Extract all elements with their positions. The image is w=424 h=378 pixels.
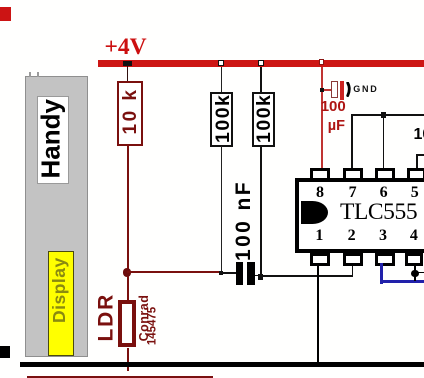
rail marker for C2 xyxy=(319,59,324,65)
pin 1 box xyxy=(310,253,330,267)
wire pin4 node to edge xyxy=(418,272,424,274)
pin 6 box xyxy=(375,168,395,182)
wire riser to pin 2 xyxy=(352,263,353,277)
wire C1 to node C xyxy=(255,275,261,276)
photoresistor LDR body xyxy=(118,300,136,347)
capacitor C2 minus plate xyxy=(346,82,355,97)
node C junction square xyxy=(258,274,263,279)
wire junction to pin 6 xyxy=(383,118,385,168)
pin 2 box xyxy=(343,253,363,267)
U1 notch xyxy=(301,201,328,224)
wire pin1 to ground xyxy=(317,263,320,362)
R3 value label 100k xyxy=(253,95,271,143)
pin 4 box xyxy=(405,253,424,267)
wire R1 to node A xyxy=(127,146,129,270)
wire pin5 riser xyxy=(416,154,418,168)
capacitor C2 junction dot xyxy=(320,88,324,92)
pin number 8 xyxy=(313,184,327,202)
C2 value uF xyxy=(328,118,345,134)
capacitor C1 100nF plate right xyxy=(247,262,254,285)
capacitor C1 100nF plate left xyxy=(236,262,243,285)
R2 value label 100k xyxy=(212,95,230,143)
pin number 4 xyxy=(407,227,421,245)
wire pin4 vertical xyxy=(414,263,416,281)
phone label box xyxy=(37,96,69,185)
R1 value label 10 k xyxy=(120,87,138,135)
pin4 junction dot xyxy=(411,270,418,277)
wire R2 to node B xyxy=(221,146,222,272)
junction square top net xyxy=(381,112,386,117)
C1 value label 100 nF xyxy=(232,184,251,261)
pin number 5 xyxy=(408,184,422,202)
wire node A to node B (horizontal) xyxy=(127,271,219,273)
U1 label TLC555 xyxy=(340,199,417,226)
red mark at left edge top xyxy=(0,7,11,21)
capacitor C2 plus plate xyxy=(340,81,344,100)
wire R3 to node C xyxy=(260,146,262,275)
wire rail to pin 8 (red) xyxy=(321,67,322,169)
pin number 2 xyxy=(345,227,359,245)
rail marker for R2 xyxy=(218,60,223,65)
pin number 7 xyxy=(346,184,360,202)
LDR label xyxy=(94,295,112,342)
resistor R2 100k xyxy=(210,92,233,147)
pin 7 box xyxy=(343,168,363,182)
rail marker for R3 xyxy=(258,60,263,65)
pin number 6 xyxy=(377,184,391,202)
capacitor C2 body box xyxy=(331,81,339,99)
label 10 (cut off 100k) xyxy=(414,126,424,144)
wire rail to R3 xyxy=(260,67,262,93)
phone antenna tick 2 xyxy=(37,72,39,77)
Handy label xyxy=(36,100,61,178)
pin 3 box xyxy=(375,253,395,267)
node B junction square xyxy=(219,271,224,275)
wire node C to pin2 riser xyxy=(263,275,353,276)
LDR label 145475 xyxy=(147,305,159,346)
pin number 1 xyxy=(312,227,326,245)
resistor R1 10k xyxy=(117,81,143,146)
GND label xyxy=(353,84,378,94)
wire pin3 blue vertical xyxy=(380,263,383,284)
junction on rail node R1 xyxy=(123,61,132,66)
display panel xyxy=(48,251,75,356)
wire rail to R2 xyxy=(221,67,222,93)
wire node A to LDR xyxy=(127,276,129,300)
cut-off red text at bottom edge xyxy=(27,376,213,378)
ground bus bar xyxy=(20,362,424,367)
C2 stub wire xyxy=(324,89,331,90)
wire blue horizontal to edge xyxy=(380,280,424,283)
pin 5 box xyxy=(407,168,424,182)
phone body panel xyxy=(25,76,88,357)
wire rail to R1 xyxy=(127,65,129,81)
resistor R3 100k xyxy=(252,92,275,147)
pin number 3 xyxy=(376,227,390,245)
phone antenna tick 1 xyxy=(29,72,31,77)
wire pin7 riser xyxy=(351,114,353,168)
wire horizontal top net xyxy=(351,114,424,116)
wire LDR to ground xyxy=(127,348,129,371)
wire pin5 horizontal to edge xyxy=(416,154,424,156)
node A junction dot xyxy=(123,268,132,277)
C2 value 100 xyxy=(321,98,346,115)
power rail +4V xyxy=(98,60,424,67)
pin 8 box xyxy=(310,168,330,182)
wire node B to C1 xyxy=(223,272,236,273)
black mark at left edge bottom xyxy=(0,346,10,358)
+4V net label xyxy=(105,34,147,61)
LDR label Conrad xyxy=(137,294,149,342)
Display label xyxy=(49,259,65,323)
op-amp timer U1 TLC555 body xyxy=(295,178,424,253)
